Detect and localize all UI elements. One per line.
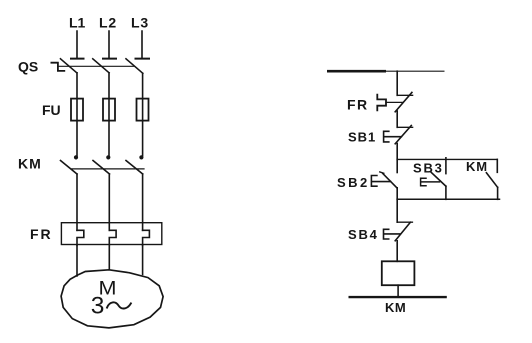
svg-text:KM: KM <box>385 300 406 315</box>
svg-text:FR: FR <box>30 226 53 242</box>
svg-text:QS: QS <box>18 58 38 74</box>
svg-text:L3: L3 <box>131 14 149 30</box>
svg-text:SB3: SB3 <box>413 160 444 175</box>
svg-text:SB1: SB1 <box>348 130 376 145</box>
svg-text:KM: KM <box>18 155 42 171</box>
svg-text:SB4: SB4 <box>348 227 379 242</box>
svg-text:KM: KM <box>466 159 488 174</box>
svg-text:3: 3 <box>91 293 105 320</box>
svg-text:SB2: SB2 <box>337 175 370 190</box>
svg-text:FU: FU <box>42 102 61 118</box>
svg-text:L2: L2 <box>99 14 117 30</box>
svg-text:L1: L1 <box>69 14 86 30</box>
svg-text:FR: FR <box>347 96 369 112</box>
